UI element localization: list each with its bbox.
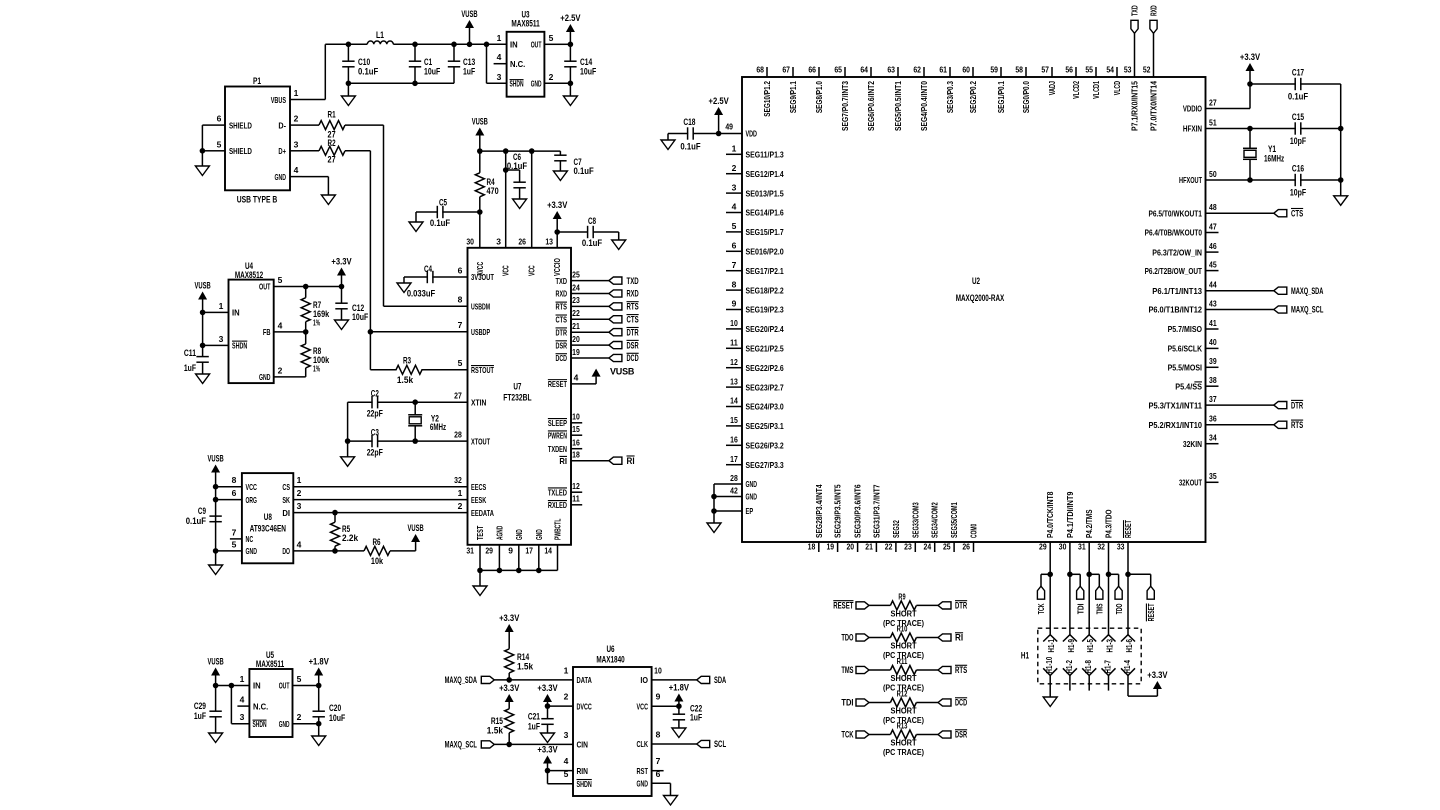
svg-text:6: 6 [732, 241, 737, 251]
svg-text:3: 3 [294, 139, 299, 149]
power +3.3V at R14 [505, 624, 514, 632]
svg-text:RESET: RESET [1146, 603, 1156, 621]
svg-text:C14: C14 [580, 57, 592, 67]
svg-text:EECS: EECS [471, 482, 487, 492]
svg-text:TXD: TXD [627, 276, 639, 286]
svg-text:SEG7/P0.7/INT3: SEG7/P0.7/INT3 [840, 81, 850, 131]
svg-text:DSR: DSR [556, 340, 567, 350]
ground U7 [473, 586, 487, 596]
svg-text:C21: C21 [528, 712, 540, 722]
svg-text:VCC: VCC [637, 701, 648, 711]
crystal Y2 6MHz [414, 402, 416, 414]
svg-text:SHDN: SHDN [510, 80, 524, 89]
svg-text:GND: GND [275, 172, 286, 182]
svg-text:1: 1 [240, 674, 245, 684]
svg-text:1: 1 [497, 33, 502, 43]
ground C14 [563, 96, 577, 106]
svg-text:0.1uF: 0.1uF [582, 238, 603, 248]
svg-text:SEG12/P1.4: SEG12/P1.4 [746, 169, 784, 179]
U2 pin 23 SEG33/COM3 stub [914, 542, 916, 552]
svg-text:2: 2 [297, 488, 302, 498]
svg-text:10: 10 [572, 412, 580, 422]
svg-text:26: 26 [518, 237, 526, 247]
svg-text:VADJ: VADJ [1047, 81, 1057, 95]
svg-text:MAXQ_SCL: MAXQ_SCL [445, 740, 478, 750]
svg-text:7: 7 [732, 260, 737, 270]
svg-text:4: 4 [278, 320, 283, 330]
power +3.3V at R15 [505, 694, 514, 702]
svg-text:6MHz: 6MHz [430, 422, 447, 432]
U2 pin 22 SEG32 stub [895, 542, 897, 552]
svg-text:P4.1/TDI/INT9: P4.1/TDI/INT9 [1065, 491, 1075, 538]
svg-text:VUSB: VUSB [472, 117, 489, 127]
svg-text:10k: 10k [371, 556, 384, 566]
svg-text:P4.0/TCK/INT8: P4.0/TCK/INT8 [1045, 491, 1055, 538]
svg-text:C10: C10 [358, 57, 370, 67]
svg-text:DTR: DTR [556, 327, 567, 337]
svg-text:C20: C20 [329, 703, 341, 713]
svg-text:54: 54 [1106, 65, 1114, 75]
svg-text:MAX8511: MAX8511 [256, 659, 284, 669]
svg-text:35: 35 [1209, 471, 1217, 481]
svg-text:26: 26 [962, 542, 970, 552]
svg-text:MAXQ2000-RAX: MAXQ2000-RAX [956, 293, 1005, 303]
capacitor C12 [341, 287, 343, 304]
svg-text:TXD: TXD [1130, 5, 1140, 16]
regulator U3 MAX8511 [507, 32, 545, 97]
ground C5 [415, 212, 417, 222]
U2 pin 1 SEG11/P1.3 stub [726, 153, 742, 155]
svg-text:H1: H1 [1021, 651, 1029, 661]
svg-text:19: 19 [826, 542, 834, 552]
capacitor C11 [202, 345, 204, 356]
svg-text:52: 52 [1143, 65, 1151, 75]
capacitor C10 [347, 44, 349, 61]
svg-text:3: 3 [297, 501, 302, 511]
svg-text:4: 4 [294, 165, 299, 175]
svg-text:SEG4/P0.4/INT0: SEG4/P0.4/INT0 [919, 81, 929, 131]
svg-text:NC: NC [246, 534, 254, 544]
wire U7 ground rail [479, 545, 481, 571]
svg-text:50: 50 [1209, 169, 1217, 179]
svg-text:1.5k: 1.5k [517, 662, 534, 672]
svg-text:R15: R15 [491, 716, 503, 726]
wire D- to USBDM [383, 125, 385, 306]
wire VBUS [302, 99, 325, 101]
svg-text:RTS: RTS [627, 302, 639, 312]
power VUSB at U4 [198, 292, 207, 300]
U2 pin 16 SEG26/P3.2 stub [726, 444, 742, 446]
svg-text:VCC: VCC [501, 265, 511, 276]
svg-text:GND: GND [246, 546, 257, 556]
svg-text:USBDP: USBDP [471, 327, 490, 337]
capacitor C3 [348, 440, 373, 442]
svg-text:P6.2/T2B/OW_OUT: P6.2/T2B/OW_OUT [1145, 266, 1203, 276]
wire VCC pin26 down [531, 151, 533, 248]
svg-text:0.1uF: 0.1uF [1288, 92, 1309, 102]
svg-text:C9: C9 [198, 506, 206, 516]
svg-text:1: 1 [294, 88, 299, 98]
svg-text:MAX8511: MAX8511 [511, 19, 539, 29]
wire U3 shdn branch [486, 44, 488, 83]
ground crystal [341, 457, 355, 467]
U6 pin 7 RST stub [652, 770, 664, 772]
U2 pin 8 SEG18/P2.2 stub [726, 289, 742, 291]
U2 pin 67 SEG9/P1.1 [792, 67, 794, 77]
svg-text:+1.8V: +1.8V [669, 683, 689, 693]
wire crystal gnd [347, 402, 349, 441]
svg-text:+2.5V: +2.5V [708, 96, 728, 106]
svg-text:66: 66 [808, 65, 816, 75]
svg-text:3: 3 [732, 182, 737, 192]
ground C4 [403, 277, 405, 283]
svg-text:P5.2/RX1/INT10: P5.2/RX1/INT10 [1148, 420, 1202, 430]
svg-text:10uF: 10uF [580, 67, 597, 77]
tag TDI at JTAG column [1067, 572, 1073, 578]
svg-text:IN: IN [510, 39, 518, 49]
svg-text:VCCIO: VCCIO [552, 258, 562, 276]
svg-text:51: 51 [1209, 117, 1217, 127]
svg-text:28: 28 [454, 429, 462, 439]
svg-text:C13: C13 [463, 57, 475, 67]
svg-text:VLCD1: VLCD1 [1091, 81, 1101, 99]
svg-text:P6.5/T0/WKOUT1: P6.5/T0/WKOUT1 [1148, 208, 1202, 218]
wire U4 out [274, 286, 342, 288]
svg-text:32: 32 [1097, 542, 1105, 552]
capacitor C9 [209, 515, 221, 517]
svg-text:R12: R12 [897, 690, 908, 699]
svg-text:0.1uF: 0.1uF [186, 516, 207, 526]
svg-text:12: 12 [730, 357, 738, 367]
svg-text:C8: C8 [588, 216, 596, 226]
svg-text:P4.2/TMS: P4.2/TMS [1084, 509, 1094, 538]
svg-text:2: 2 [297, 712, 302, 722]
header H1 pin H1-9 [1069, 574, 1071, 634]
power VUSB arrow [469, 27, 471, 44]
tag RXD top [1153, 33, 1155, 67]
svg-text:C1: C1 [424, 57, 432, 67]
resistor R6 [364, 546, 390, 555]
svg-text:65: 65 [834, 65, 842, 75]
power VUSB at U7 reset [592, 369, 601, 377]
svg-text:25: 25 [572, 269, 580, 279]
svg-text:GND: GND [259, 372, 270, 382]
wire RIN/SHDN [548, 770, 574, 772]
svg-text:7: 7 [656, 756, 661, 766]
svg-text:R13: R13 [897, 722, 908, 731]
svg-text:55: 55 [1085, 65, 1093, 75]
svg-text:28: 28 [730, 473, 738, 483]
svg-text:H1-4: H1-4 [1123, 660, 1132, 674]
resistor R7 [305, 287, 307, 298]
svg-text:11: 11 [572, 494, 580, 504]
wire H1-10 to ground [1049, 676, 1051, 698]
regulator U4 MAX8512 [229, 280, 274, 384]
svg-text:DSR: DSR [627, 340, 639, 350]
svg-text:RTS: RTS [556, 302, 568, 312]
wire P1 GND [302, 176, 328, 178]
svg-text:SEG27/P3.3: SEG27/P3.3 [746, 460, 784, 470]
svg-text:SHDN: SHDN [577, 779, 592, 789]
svg-text:62: 62 [913, 65, 921, 75]
svg-text:SHIELD: SHIELD [229, 146, 252, 156]
svg-text:VLCD2: VLCD2 [1071, 81, 1081, 99]
svg-text:5: 5 [458, 358, 463, 368]
svg-text:SEG32: SEG32 [891, 520, 901, 538]
svg-text:C18: C18 [683, 117, 695, 127]
tag TXD top [1134, 33, 1136, 67]
svg-text:1uF: 1uF [184, 363, 197, 373]
power +3.3V at RIN [543, 756, 552, 764]
capacitor C8 [557, 231, 588, 233]
svg-text:SK: SK [282, 495, 290, 505]
svg-text:0.1uF: 0.1uF [358, 67, 379, 77]
U2 pin 64 SEG6/P0.6/INT2 [870, 67, 872, 77]
U2 pin 63 SEG5/P0.5/INT1 [897, 67, 899, 77]
svg-text:43: 43 [1209, 298, 1217, 308]
svg-text:SE016/P2.0: SE016/P2.0 [746, 247, 784, 257]
svg-text:2: 2 [549, 72, 554, 82]
U2 pin 32 P4.3/TDO [1108, 542, 1110, 574]
power +3.3V at C21 [543, 694, 552, 702]
tag TDO at JTAG column [1106, 572, 1112, 578]
svg-text:2: 2 [564, 692, 569, 702]
U2 pin 62 SEG4/P0.4/INT0 [923, 67, 925, 77]
tag RESET at JTAG column [1125, 572, 1131, 578]
U2 pin 31 P4.2/TMS [1088, 542, 1090, 574]
svg-text:MAX1840: MAX1840 [596, 655, 624, 665]
svg-text:HFXIN: HFXIN [1183, 124, 1202, 134]
svg-text:+3.3V: +3.3V [499, 613, 519, 623]
svg-text:L1: L1 [376, 30, 384, 40]
svg-text:3: 3 [564, 730, 569, 740]
ground C29 [209, 733, 223, 743]
svg-text:16: 16 [730, 435, 738, 445]
U2 pin 21 SEG31/P3.7/INT7 stub [875, 542, 877, 552]
svg-text:C16: C16 [1292, 164, 1304, 174]
svg-text:COM0: COM0 [969, 524, 979, 538]
svg-text:P6.4/T0B/WKOUT0: P6.4/T0B/WKOUT0 [1145, 228, 1203, 238]
tag TMS at JTAG column [1086, 572, 1092, 578]
U2 pin 53 P7.1/RX0/INT15 [1134, 67, 1136, 77]
svg-text:59: 59 [990, 65, 998, 75]
svg-text:10uF: 10uF [329, 713, 346, 723]
svg-text:SEG33/COM3: SEG33/COM3 [910, 502, 920, 538]
capacitor C1 [414, 44, 416, 61]
svg-text:5: 5 [232, 539, 237, 549]
svg-text:VUSB: VUSB [408, 523, 425, 533]
U2 pin 13 SEG23/P2.7 stub [726, 386, 742, 388]
svg-text:R6: R6 [372, 537, 380, 547]
ground C18 [667, 134, 669, 141]
svg-text:14: 14 [730, 396, 738, 406]
svg-text:1%: 1% [313, 365, 320, 374]
svg-text:SHORT: SHORT [891, 642, 917, 651]
svg-text:8: 8 [458, 295, 463, 305]
ground H1 [1043, 697, 1057, 707]
U2 pin 55 VLCD1 [1095, 67, 1097, 77]
U2 pin 68 SEG10/P1.2 [766, 67, 768, 77]
svg-text:USB TYPE B: USB TYPE B [237, 195, 278, 205]
ground C22 [672, 728, 686, 738]
svg-text:3: 3 [497, 72, 502, 82]
svg-text:1: 1 [564, 665, 569, 675]
svg-text:TDI: TDI [841, 698, 853, 708]
svg-text:0.033uF: 0.033uF [407, 289, 436, 299]
svg-text:DTR: DTR [955, 601, 967, 611]
svg-text:RI: RI [955, 633, 963, 643]
svg-text:19: 19 [572, 347, 580, 357]
svg-text:VUSB: VUSB [610, 366, 635, 376]
regulator U5 MAX8511 [249, 669, 292, 737]
svg-text:IO: IO [640, 675, 648, 685]
svg-text:DVCC: DVCC [577, 701, 592, 711]
resistor R4 [479, 151, 481, 173]
U2 pin 54 VLCD [1116, 67, 1118, 77]
capacitor C2 [348, 401, 373, 403]
U2 pin 2 SEG12/P1.4 stub [726, 173, 742, 175]
wire filter gnd rail [348, 82, 454, 84]
svg-text:8: 8 [732, 279, 737, 289]
ground U2 left [707, 523, 721, 533]
U2 pin 29 P4.0/TCK/INT8 [1049, 542, 1051, 574]
svg-text:SCL: SCL [714, 739, 726, 749]
svg-text:42: 42 [730, 486, 738, 496]
svg-text:1: 1 [219, 301, 224, 311]
svg-text:MAX8512: MAX8512 [235, 270, 263, 280]
svg-text:MAXQ_SDA: MAXQ_SDA [1291, 286, 1324, 296]
capacitor C29 [215, 686, 217, 712]
svg-text:8: 8 [656, 730, 661, 740]
svg-text:OUT: OUT [531, 40, 542, 49]
svg-text:TDI: TDI [1075, 604, 1085, 615]
svg-text:22pF: 22pF [367, 447, 384, 457]
svg-text:37: 37 [1209, 394, 1217, 404]
svg-text:0.1uF: 0.1uF [680, 142, 701, 152]
svg-text:9: 9 [656, 692, 661, 702]
U2 pin 18 SEG28/P3.4/INT4 stub [818, 542, 820, 552]
wire H1-4 to +3.3V [1127, 676, 1129, 697]
svg-text:2: 2 [278, 365, 283, 375]
wire U3 out [556, 43, 570, 45]
svg-text:P6.0/T1B/INT12: P6.0/T1B/INT12 [1148, 305, 1202, 315]
U2 pin 49 VDD [719, 133, 742, 135]
svg-text:N.C.: N.C. [253, 701, 268, 711]
svg-text:IN: IN [253, 681, 261, 691]
svg-text:0.1uF: 0.1uF [574, 166, 595, 176]
svg-text:68: 68 [756, 65, 764, 75]
U2 pin 14 SEG24/P3.0 stub [726, 406, 742, 408]
svg-text:1: 1 [458, 488, 463, 498]
resistor R14 [505, 649, 514, 673]
svg-text:P1: P1 [253, 76, 261, 86]
svg-text:RI: RI [559, 456, 567, 466]
svg-text:RESET: RESET [548, 379, 568, 389]
svg-text:SEG30/P3.6/INT6: SEG30/P3.6/INT6 [853, 484, 863, 538]
svg-text:6: 6 [217, 114, 222, 124]
power +2.5V at U3 [569, 31, 571, 44]
svg-text:30: 30 [1059, 542, 1067, 552]
wire VCC pin3 down [505, 151, 507, 248]
svg-text:P5.5/MOSI: P5.5/MOSI [1168, 363, 1202, 373]
ground Y1 caps [1334, 196, 1348, 206]
svg-text:SEG1/P0.1: SEG1/P0.1 [996, 81, 1006, 113]
svg-text:2: 2 [732, 163, 737, 173]
svg-text:CS: CS [282, 482, 290, 492]
U2 pin 19 SEG29/P3.5/INT5 stub [837, 542, 839, 552]
svg-text:21: 21 [865, 542, 873, 552]
wire VDDIO [1206, 108, 1251, 110]
svg-text:+2.5V: +2.5V [560, 13, 580, 23]
svg-text:1: 1 [732, 144, 737, 154]
svg-text:SHORT: SHORT [891, 739, 917, 748]
svg-text:AT93C46EN: AT93C46EN [250, 524, 286, 534]
svg-text:21: 21 [572, 321, 580, 331]
svg-text:5: 5 [732, 221, 737, 231]
U2 pin 52 P7.0/TX0/INT14 [1153, 67, 1155, 77]
svg-text:R14: R14 [517, 652, 529, 662]
svg-text:32KIN: 32KIN [1183, 439, 1202, 449]
U2 pin 10 SEG20/P2.4 stub [726, 328, 742, 330]
svg-text:RTS: RTS [1291, 420, 1303, 430]
U2 pin 58 SEG0/P0.0 [1025, 67, 1027, 77]
svg-text:6: 6 [232, 488, 237, 498]
svg-text:33: 33 [1117, 542, 1125, 552]
U2 pin 6 SE016/P2.0 stub [726, 250, 742, 252]
IC U7 FT232BL [468, 248, 572, 545]
svg-text:+3.3V: +3.3V [537, 745, 557, 755]
svg-text:CLK: CLK [637, 739, 649, 749]
svg-text:H1-2: H1-2 [1065, 660, 1074, 674]
power +3.3V at U4 out [337, 268, 346, 276]
power VUSB at U8 [211, 465, 220, 473]
svg-text:P6.3/T2/OW_IN: P6.3/T2/OW_IN [1152, 247, 1202, 257]
power +3.3V at H1 [1153, 681, 1162, 689]
svg-text:4: 4 [240, 695, 245, 705]
svg-text:H1-3: H1-3 [1106, 639, 1115, 653]
svg-text:SEG10/P1.2: SEG10/P1.2 [762, 81, 772, 117]
IC U6 MAX1840 [573, 667, 652, 796]
svg-text:FT232BL: FT232BL [503, 393, 532, 403]
wire U5 out [293, 685, 319, 687]
svg-text:VUSB: VUSB [461, 9, 478, 19]
svg-text:C15: C15 [1292, 112, 1304, 122]
svg-text:14: 14 [544, 546, 552, 556]
svg-text:TMS: TMS [1095, 603, 1105, 614]
svg-text:CIN: CIN [577, 740, 588, 750]
svg-text:10uF: 10uF [424, 67, 441, 77]
svg-text:10: 10 [730, 318, 738, 328]
svg-text:12: 12 [572, 481, 580, 491]
svg-text:SEG18/P2.2: SEG18/P2.2 [746, 285, 784, 295]
capacitor C13 [453, 44, 455, 61]
U2 pin 26 COM0 stub [973, 542, 975, 552]
svg-text:31: 31 [1078, 542, 1086, 552]
U2 pin 59 SEG1/P0.1 [1000, 67, 1002, 77]
svg-text:SEG17/P2.1: SEG17/P2.1 [746, 266, 784, 276]
svg-text:TEST: TEST [475, 525, 485, 540]
svg-text:P7.0/TX0/INT14: P7.0/TX0/INT14 [1149, 81, 1159, 131]
svg-text:67: 67 [782, 65, 790, 75]
svg-text:56: 56 [1065, 65, 1073, 75]
svg-text:GND: GND [514, 529, 524, 540]
svg-text:SEG24/P3.0: SEG24/P3.0 [746, 402, 784, 412]
svg-text:RTS: RTS [955, 665, 967, 675]
svg-text:SHDN: SHDN [253, 720, 267, 729]
U2 pin 60 SEG2/P0.2 [972, 67, 974, 77]
svg-text:3: 3 [496, 237, 501, 247]
svg-text:SEG19/P2.3: SEG19/P2.3 [746, 305, 784, 315]
